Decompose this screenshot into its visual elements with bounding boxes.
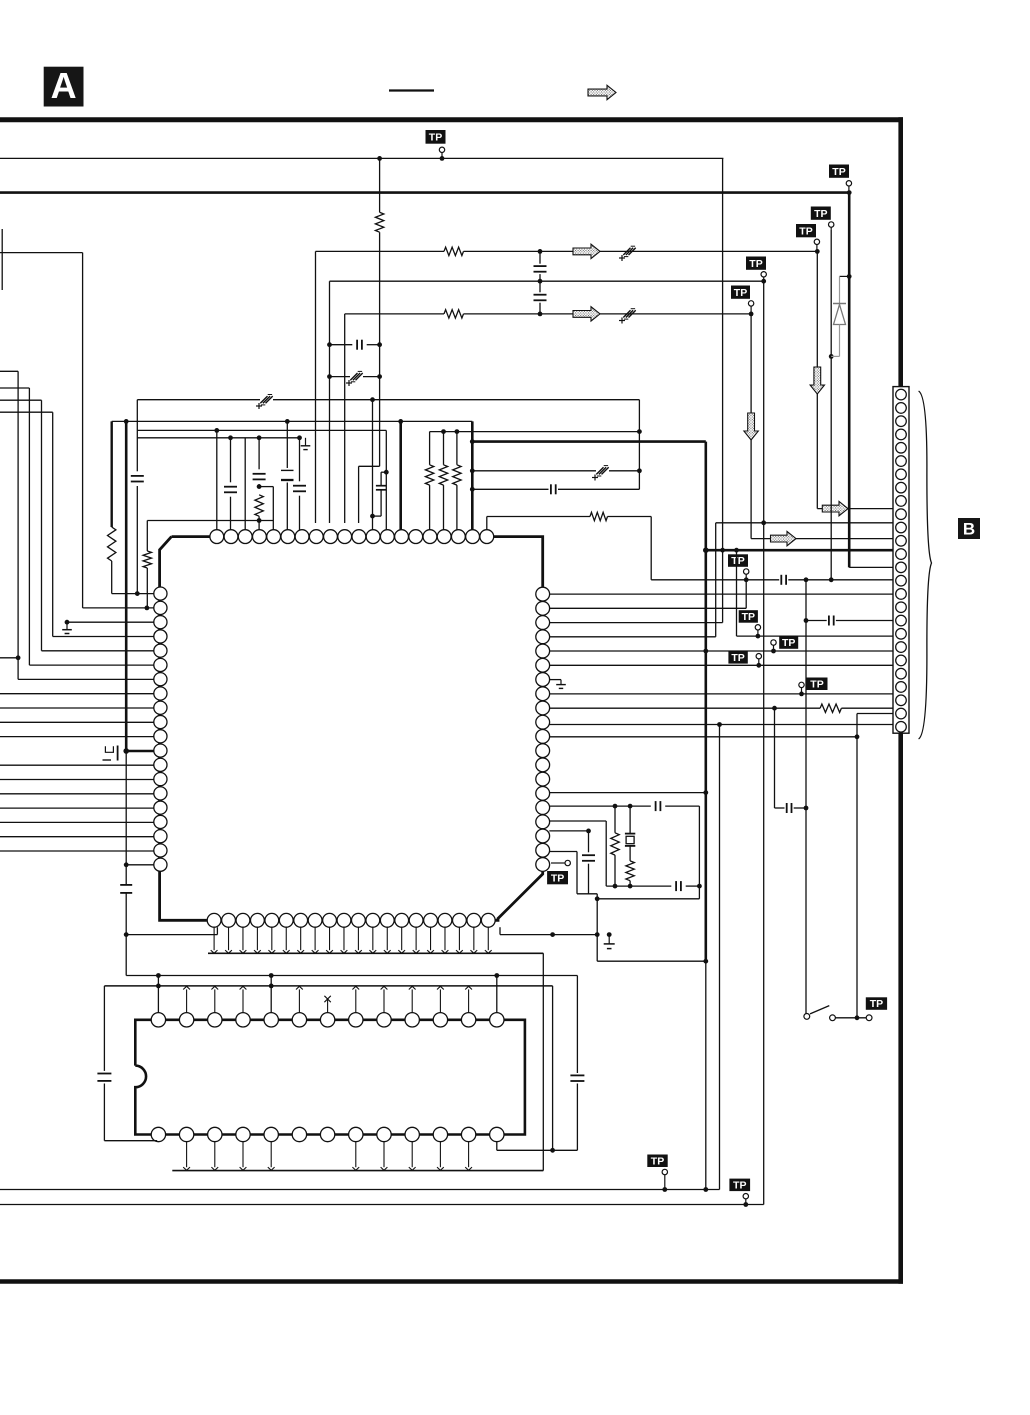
wire R6 to L2 row <box>146 568 148 608</box>
junction col597/net934 <box>595 932 600 937</box>
wire R10 row to connector pin26 <box>549 724 893 726</box>
junction R9row/cap column <box>772 706 777 711</box>
junction col699/net886 <box>697 884 702 889</box>
junction diode top / thick column <box>847 274 852 279</box>
wire R4 to L1 row <box>111 561 113 594</box>
wire riser to B1 <box>216 927 218 934</box>
junction col806/C16 <box>804 618 809 623</box>
capacitor C18 <box>655 801 657 811</box>
wire net12 y550 (bus) <box>706 549 893 552</box>
no-connect X on D7 <box>327 999 329 1013</box>
capacitor C14 <box>550 484 552 494</box>
junction R1col/C1 <box>377 342 382 347</box>
junction T12/C24 branch <box>370 514 375 519</box>
capacitor C4 <box>539 281 541 292</box>
wire L1 row <box>112 593 154 595</box>
svg-text:TP: TP <box>731 652 744 664</box>
wire netA y421 <box>112 420 473 422</box>
svg-text:TP: TP <box>731 555 744 567</box>
wire L19 row <box>0 850 154 852</box>
wire net10 y470 <box>472 470 596 472</box>
wire col126 lower <box>125 751 127 885</box>
wire L17 row <box>0 821 154 823</box>
junction net12/R3riser <box>720 548 725 553</box>
wire netC y437 <box>137 437 301 439</box>
wire R8 row to connector pin23 <box>549 693 893 695</box>
junction R5row/TPc <box>771 649 776 654</box>
test point TP3 on net3 <box>796 224 816 237</box>
test point TPa <box>728 554 748 567</box>
junction R16row/Rx1 <box>613 804 618 809</box>
capacitor C8 (polarized) <box>260 396 267 403</box>
wire into connector pin11 <box>751 538 893 540</box>
wire into connector pin10 <box>716 522 893 524</box>
wire TP5 column <box>750 314 752 539</box>
wire TP2 column x849 (bus) <box>848 193 851 568</box>
junction R1col/C2 <box>377 374 382 379</box>
junction netA/T14 <box>398 419 403 424</box>
junction w_a/D1 <box>156 973 161 978</box>
test point TPg <box>866 1015 872 1021</box>
resistor R1 <box>375 212 383 232</box>
crystal X1 <box>629 806 631 834</box>
wire net6 y399 <box>137 399 260 401</box>
wire R16 row <box>549 805 651 807</box>
ground G2 <box>556 684 566 686</box>
capacitor C9 <box>224 486 237 488</box>
junction net934/G3 <box>607 932 612 937</box>
ic U2 top pin stems <box>186 989 188 1012</box>
wire connector pin25 row <box>857 713 893 715</box>
wire L2 long <box>82 253 84 608</box>
test point TPe <box>807 678 828 691</box>
wire net9 y441 (bus) <box>472 440 706 443</box>
resistor R7 <box>429 432 431 465</box>
wire w_b left loop <box>103 986 105 1071</box>
svg-text:TP: TP <box>782 637 795 649</box>
wire L10 row <box>0 721 154 723</box>
junction netC/T7 <box>297 435 302 440</box>
svg-text:TP: TP <box>814 208 827 220</box>
connector CN1 body <box>893 387 909 734</box>
border top <box>0 117 903 122</box>
junction net961/bus x706 <box>703 959 708 964</box>
wire thick column x126 (bus) <box>125 421 128 751</box>
wire T6 column <box>286 421 288 468</box>
wire R5 row to connector pin20 <box>549 650 893 652</box>
wire T1 column <box>216 430 218 529</box>
sheet label A <box>44 67 84 107</box>
junction R10row/riser <box>717 722 722 727</box>
junction net6/T12 <box>370 397 375 402</box>
wire to pin T11 <box>359 465 380 467</box>
wire L9 row <box>0 707 154 709</box>
ic U1 top pins <box>210 530 224 544</box>
junction net934/col552 <box>550 932 555 937</box>
wire bus column x706 <box>704 442 707 962</box>
wire L8 row <box>0 693 154 695</box>
capacitor C5 (polarized) <box>623 248 630 255</box>
wire T2 column <box>230 438 232 483</box>
wire w_a right drop <box>576 976 578 1074</box>
wire R18 row <box>549 830 588 832</box>
wire C17 row <box>775 807 785 809</box>
switch SW1 <box>804 1014 810 1020</box>
junction netA/T6 <box>285 419 290 424</box>
svg-text:TP: TP <box>429 131 442 143</box>
junction net4/C1 <box>327 342 332 347</box>
wire net4 y281 <box>330 280 764 282</box>
wire net y934 left <box>126 934 217 936</box>
resistor R6 <box>143 551 151 568</box>
wire net w_b y986 <box>104 985 552 987</box>
wire net3 drop to T8 <box>315 251 317 523</box>
wire net7 y520 <box>147 520 273 522</box>
resistor R4 <box>108 527 116 561</box>
test point TP1 <box>426 130 446 144</box>
wire R5 bypass <box>259 486 273 488</box>
wire T14 column (bus) <box>399 421 402 529</box>
signal arrow A2 <box>573 307 600 321</box>
wire stub top-left <box>0 252 83 254</box>
capacitor C6 (polarized) <box>623 310 630 317</box>
wire col699 drop <box>698 806 700 899</box>
wire R6 row to connector pin21 <box>549 664 893 666</box>
ic U2 bottom pin stems <box>186 1142 188 1167</box>
capacitor C7 <box>131 475 144 477</box>
connector CN1 pins <box>896 389 907 400</box>
wire col552 (w_b drop) <box>552 986 554 1150</box>
capacitor C10 <box>253 473 266 475</box>
wire net934 riser <box>499 927 501 934</box>
junction col597/net898 <box>595 896 600 901</box>
junction R15row/bus x706 <box>703 790 708 795</box>
capacitor C19 <box>675 881 677 891</box>
wire D1 riser <box>157 976 159 1013</box>
svg-text:TP: TP <box>734 287 747 299</box>
wire L11 row <box>0 736 154 738</box>
junction diode/TP6col <box>829 354 834 359</box>
wire L4 route <box>0 411 53 413</box>
junction netC/T2 <box>228 435 233 440</box>
capacitor C2 (polarized) <box>350 373 357 380</box>
wire netA left drop <box>110 421 112 527</box>
junction netA/thickcol <box>124 419 129 424</box>
wire TP3 column <box>816 251 818 508</box>
capacitor C11 (polarized) <box>281 469 294 471</box>
junction L2/R6 <box>145 606 150 611</box>
wire net2 y192 (bus) <box>0 191 849 194</box>
resistor R9 <box>456 432 458 465</box>
wire net13 drop x651 <box>650 517 652 580</box>
wire R4 row <box>549 636 715 638</box>
junction R8row/TPe <box>799 692 804 697</box>
test point TPr <box>729 1179 750 1192</box>
wire T13 column <box>385 430 387 529</box>
wire L14 row <box>0 779 154 781</box>
junction w1/TPb <box>756 634 761 639</box>
wire branch y657 <box>0 657 18 659</box>
junction w_a/D13 <box>494 973 499 978</box>
wire T3 column <box>244 438 246 530</box>
wire col806 <box>805 580 807 1014</box>
test point TPb <box>739 610 758 623</box>
capacitor C23 <box>570 1074 584 1076</box>
resistor R10 <box>590 512 608 520</box>
wire L13 row <box>0 764 154 766</box>
junction T13/C24 branch <box>384 470 389 475</box>
junction net4/C2 <box>327 374 332 379</box>
junction L20/col126 <box>124 862 129 867</box>
junction R5row/bus x706 <box>703 649 708 654</box>
wire net11 y489 <box>472 488 548 490</box>
wire T20 riser <box>486 517 488 530</box>
wire net886 <box>606 885 671 887</box>
junction T4/R5 bottom <box>257 518 262 523</box>
wire R19 loop <box>549 851 577 853</box>
wire R1 row to connector pin16 <box>549 593 893 595</box>
svg-text:TP: TP <box>810 678 823 690</box>
wire L6 route <box>0 387 29 389</box>
wire switch column x857 <box>856 714 858 1018</box>
test point TPq <box>647 1155 667 1168</box>
wire net8 y431 <box>430 431 640 433</box>
svg-text:A: A <box>51 65 77 106</box>
signal arrow A1 <box>573 244 600 258</box>
wire TP6 column <box>830 230 832 580</box>
wire D13 riser <box>496 976 498 1013</box>
wire net1150 <box>497 1149 578 1151</box>
ic U1 left pins <box>154 587 167 600</box>
ic U2 top pins <box>151 1013 165 1027</box>
capacitor C13 (polarized) <box>596 467 603 474</box>
svg-text:TP: TP <box>651 1155 664 1167</box>
wire L16 row <box>0 807 154 809</box>
wire L12 row (bus) <box>126 750 154 753</box>
wire TP4 column <box>763 281 765 1204</box>
junction w_b/D1riser <box>156 984 161 989</box>
wire L7 route <box>0 370 18 372</box>
wire R3 row <box>549 622 722 624</box>
svg-text:TP: TP <box>799 225 812 237</box>
capacitor C1 <box>330 344 353 346</box>
junction col639/net8 <box>637 429 642 434</box>
wire C17 column <box>774 708 776 808</box>
junction net3/C3 <box>538 249 543 254</box>
ground G3 <box>608 935 610 944</box>
wire net w_a y975 <box>126 975 577 977</box>
ic U1 outline <box>172 535 210 538</box>
junction net5/C4 <box>538 312 543 317</box>
resistor R2 <box>444 247 464 255</box>
svg-text:B: B <box>963 520 975 539</box>
test point TP2 <box>829 165 849 178</box>
signal arrow A5 (down) <box>744 413 758 440</box>
wire L15 row <box>0 793 154 795</box>
junction net13/TPa <box>744 577 749 582</box>
junction T19col/net10 <box>470 468 475 473</box>
resistor R3 <box>444 310 464 318</box>
junction T19col/net9 <box>470 439 475 444</box>
ic U2 outline <box>135 1020 525 1135</box>
wire into connector pin14 <box>849 566 893 568</box>
junction net13/TP6col <box>829 577 834 582</box>
legend arrow sample <box>588 85 616 99</box>
wire net1204 <box>0 1204 764 1206</box>
wire net1189 <box>0 1189 720 1191</box>
wire net13 y516 <box>487 516 590 518</box>
wire L18 row <box>0 836 154 838</box>
wire net13 y579 <box>651 579 779 581</box>
ic U1 bottom pins <box>207 913 221 927</box>
wire col597 drop <box>596 894 598 961</box>
capacitor C22 <box>97 1073 111 1075</box>
crystal-ground symbol S1 <box>105 746 113 752</box>
signal arrow A4 <box>822 501 848 515</box>
wire T19 column (bus) <box>471 421 474 529</box>
legend wire sample <box>389 89 434 91</box>
wire L3 row <box>67 621 154 623</box>
wire into connector pin9 <box>817 508 893 510</box>
junction net886/R12 <box>613 884 618 889</box>
ic U1 right pins <box>536 587 550 601</box>
junction net1204/TPr <box>743 1202 748 1207</box>
ic U2 bottom pins <box>151 1127 165 1141</box>
ground G4 <box>66 622 68 630</box>
wire T7 column <box>299 438 301 482</box>
junction swrow/col857 <box>855 1015 860 1020</box>
junction T4/R5 top <box>257 484 262 489</box>
wire R7 stub <box>549 679 561 681</box>
junction col126/net934 <box>124 932 129 937</box>
svg-text:TP: TP <box>749 258 762 270</box>
signal arrow A3 (down) <box>810 367 824 394</box>
test point TP4 on net4 <box>746 257 766 270</box>
junction L3/ground <box>65 620 70 625</box>
border bottom <box>0 1279 903 1284</box>
junction net1/R1 <box>377 156 382 161</box>
wire R15 row <box>549 792 706 794</box>
brace for B <box>919 391 932 739</box>
wire net898 <box>597 898 699 900</box>
wire netB y430 <box>137 429 386 431</box>
capacitor C12 <box>293 485 306 487</box>
wire D5 riser <box>270 976 272 1013</box>
border right <box>898 117 903 1284</box>
junction netB/T1 <box>214 428 219 433</box>
svg-text:TP: TP <box>551 872 564 884</box>
resistor R8 <box>443 432 445 465</box>
junction L1/C7col <box>135 591 140 596</box>
junction R16row/X1 <box>628 804 633 809</box>
wire B13 riser <box>496 1142 498 1151</box>
junction net1189/TPq <box>662 1187 667 1192</box>
test point TPc <box>779 636 798 649</box>
wire bus bar drop x543 <box>542 953 544 1170</box>
wire net7 left drop <box>146 521 148 552</box>
capacitor C3 <box>539 251 541 263</box>
wire bottom bar y1170 <box>172 1170 543 1172</box>
svg-text:TP: TP <box>733 1179 746 1191</box>
junction w_a/D5 <box>269 973 274 978</box>
wire L20 row <box>126 864 154 866</box>
capacitor C17 <box>786 803 788 813</box>
wire net934 <box>500 934 597 936</box>
ground G1 on netC <box>305 438 307 446</box>
svg-text:TP: TP <box>832 166 845 178</box>
junction net4/C3 <box>538 279 543 284</box>
wire C16 row to connector pin18 <box>806 620 827 622</box>
junction net13/col806 <box>804 577 809 582</box>
capacitor C20 <box>588 831 590 852</box>
wire L5 route <box>0 399 42 401</box>
capacitor C16 <box>828 616 830 626</box>
junction net2/TP2 <box>847 190 852 195</box>
junction w_b/D5riser <box>269 984 274 989</box>
resistor R12 <box>614 806 616 833</box>
wire net3 y251 <box>316 250 445 252</box>
diode D1 <box>840 275 850 277</box>
junction net10/col639 <box>637 468 642 473</box>
wire switch row <box>835 1017 866 1019</box>
junction L7/branch <box>16 655 21 660</box>
sheet label B <box>958 518 980 539</box>
wire R1 top lead <box>379 158 381 212</box>
junction T19col/net11 <box>470 487 475 492</box>
wire R11 row <box>549 736 857 738</box>
capacitor C24 branch <box>381 471 386 473</box>
wire T5 column <box>272 521 274 530</box>
wire net961 <box>597 960 706 962</box>
junction net1189/bus x706 <box>703 1187 708 1192</box>
wire net5 y313 <box>345 313 444 315</box>
wire R2 row <box>549 607 746 609</box>
junction R18row/C20 <box>586 829 591 834</box>
wire C7 column <box>136 400 138 472</box>
wire net1 y158 <box>0 157 723 159</box>
junction w1/bus <box>734 548 739 553</box>
wire net5 drop to T10 <box>344 314 346 523</box>
resistor R11 <box>820 704 841 712</box>
junction R11row/switch column <box>855 734 860 739</box>
wire stub left edge <box>1 229 3 290</box>
capacitor C21 <box>120 884 132 886</box>
wire riser x719 <box>719 725 721 1190</box>
wire R9 row to connector pin24 <box>549 707 820 709</box>
wire bottom bus bar <box>208 952 543 954</box>
wire net1 drop x723 <box>722 158 724 550</box>
wire R1 bottom lead <box>379 232 381 466</box>
test point TPd <box>728 651 747 664</box>
wire net4 drop to T9 <box>329 281 331 523</box>
test point TP5 on net5 <box>731 286 750 299</box>
junction R6row/TPd <box>756 663 761 668</box>
wire col639 <box>638 400 640 490</box>
junction bus x706/net12 <box>703 547 709 553</box>
test point TP6 <box>811 207 831 220</box>
junction net1/TP1 <box>440 156 445 161</box>
resistor R5 <box>255 495 263 516</box>
junction col806/C17 <box>804 806 809 811</box>
capacitor C15 <box>780 575 782 585</box>
wire T4 column <box>258 438 260 470</box>
svg-text:TP: TP <box>870 998 883 1010</box>
wire T12 column <box>372 400 374 530</box>
junction TP4col/conn10 <box>761 520 766 525</box>
ic U1 bottom pin stems <box>213 927 215 950</box>
wire w1 row to connector pin19 <box>737 635 894 637</box>
resistor R13 <box>626 861 634 881</box>
